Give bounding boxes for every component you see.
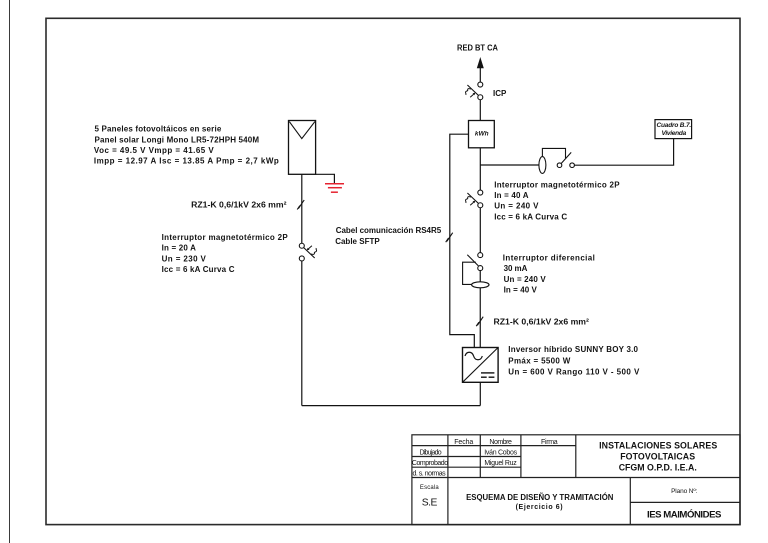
wire bottom DC run to inverter <box>302 405 481 407</box>
svg-text:Un = 240 V: Un = 240 V <box>494 201 539 210</box>
breaker ICP <box>466 82 483 100</box>
svg-text:Interruptor magnetotérmico 2P: Interruptor magnetotérmico 2P <box>162 233 289 242</box>
svg-text:Plano Nº:: Plano Nº: <box>671 488 697 495</box>
solar panel PV <box>289 121 316 175</box>
svg-text:5 Paneles fotovoltáicos en ser: 5 Paneles fotovoltáicos en serie <box>95 124 222 133</box>
svg-text:S.E: S.E <box>422 498 438 509</box>
svg-text:kWh: kWh <box>475 131 489 138</box>
label breaker 40A <box>494 180 620 221</box>
label breaker 20A <box>162 233 289 274</box>
svg-text:Un = 240 V: Un = 240 V <box>504 275 547 284</box>
svg-text:Icc = 6 kA Curva C: Icc = 6 kA Curva C <box>162 265 235 274</box>
svg-text:Pmáx = 5500 W: Pmáx = 5500 W <box>508 356 570 365</box>
svg-text:Vivienda: Vivienda <box>662 130 687 137</box>
svg-text:Icc = 6 kA Curva C: Icc = 6 kA Curva C <box>494 212 567 221</box>
arrow to grid <box>477 57 484 68</box>
wire ICP to meter <box>479 100 481 121</box>
svg-text:In = 20 A: In = 20 A <box>162 244 197 253</box>
svg-text:Comprobado: Comprobado <box>412 460 448 467</box>
svg-text:RZ1-K 0,6/1kV 2x6 mm²: RZ1-K 0,6/1kV 2x6 mm² <box>494 317 590 326</box>
RCD differential switch <box>463 253 489 348</box>
svg-text:Voc = 49.5 V Vmpp = 41.65 V: Voc = 49.5 V Vmpp = 41.65 V <box>94 146 214 155</box>
svg-text:Nombre: Nombre <box>489 439 512 446</box>
svg-text:Escala: Escala <box>420 485 439 491</box>
svg-text:Inversor híbrido SUNNY BOY 3.0: Inversor híbrido SUNNY BOY 3.0 <box>508 345 638 354</box>
contactor switch blade <box>561 152 571 163</box>
page left rule <box>9 0 11 543</box>
svg-text:Cable SFTP: Cable SFTP <box>335 237 380 246</box>
svg-text:Panel solar Longi Mono LR5-72H: Panel solar Longi Mono LR5-72HPH 540M <box>95 135 260 144</box>
svg-text:Firma: Firma <box>541 439 558 446</box>
wire PV down to breaker <box>301 174 303 243</box>
contactor terminals <box>557 163 562 168</box>
svg-text:Interruptor magnetotérmico 2P: Interruptor magnetotérmico 2P <box>494 180 620 189</box>
breaker Q1 DC 20A (rotated) <box>299 243 316 261</box>
svg-text:(Ejercicio 6): (Ejercicio 6) <box>516 504 563 511</box>
meter kWh <box>469 121 495 148</box>
svg-text:In = 40 A: In = 40 A <box>494 191 529 200</box>
contactor coil <box>539 157 546 174</box>
ground (red earth symbol) <box>325 184 344 192</box>
svg-text:FOTOVOLTAICAS: FOTOVOLTAICAS <box>620 451 695 461</box>
svg-text:d. s. normas: d. s. normas <box>413 470 447 477</box>
svg-text:Un = 600 V Rango 110 V - 500: Un = 600 V Rango 110 V - 500 V <box>508 368 640 377</box>
svg-text:RZ1-K 0,6/1kV 2x6 mm²: RZ1-K 0,6/1kV 2x6 mm² <box>191 200 287 209</box>
svg-text:Fecha: Fecha <box>454 439 473 446</box>
wire contactor to dwelling panel <box>574 139 673 166</box>
svg-text:Interruptor diferencial: Interruptor diferencial <box>503 254 595 263</box>
dwelling panel box Cuadro B.7 <box>655 120 692 139</box>
breaker 40A AC <box>466 190 483 208</box>
cable marker AC inverter cable <box>476 317 483 327</box>
svg-text:30 mA: 30 mA <box>504 264 528 273</box>
branch to dwelling <box>480 164 539 166</box>
svg-text:ESQUEMA DE DISEÑO Y TRAMITACIÓ: ESQUEMA DE DISEÑO Y TRAMITACIÓN <box>466 493 614 502</box>
svg-text:Dibujado: Dibujado <box>420 449 442 456</box>
contactor linkage <box>542 148 565 158</box>
label RCD <box>503 254 595 295</box>
wire breaker down to bottom DC bus <box>301 261 303 406</box>
inverter box <box>463 348 499 383</box>
cable marker DC string <box>297 200 304 210</box>
svg-text:Iván Cobos: Iván Cobos <box>484 449 517 456</box>
svg-text:Un = 230 V: Un = 230 V <box>162 254 207 263</box>
svg-text:RED BT CA: RED BT CA <box>457 44 498 53</box>
PV panel text block <box>94 124 279 165</box>
label inverter <box>508 345 640 377</box>
svg-text:Cabel comunicación RS4R5: Cabel comunicación RS4R5 <box>336 226 442 235</box>
label comm cable <box>335 226 442 246</box>
wire panel to ground branch <box>316 174 335 183</box>
comm cable from meter to inverter <box>450 134 475 347</box>
wire meter down <box>479 148 481 190</box>
svg-text:CFGM O.P.D. I.E.A.: CFGM O.P.D. I.E.A. <box>619 462 697 472</box>
svg-text:IES MAIMÓNIDES: IES MAIMÓNIDES <box>647 509 722 521</box>
cable marker comm <box>446 233 453 243</box>
svg-text:In = 40 V: In = 40 V <box>504 286 538 295</box>
svg-text:INSTALACIONES SOLARES: INSTALACIONES SOLARES <box>599 440 717 450</box>
svg-text:Cuadro B.7.: Cuadro B.7. <box>657 122 692 129</box>
wire 40A to RCD <box>479 208 481 253</box>
wire inverter to bottom bus <box>479 382 481 405</box>
svg-text:Impp = 12.97 A Isc = 13.85 A: Impp = 12.97 A Isc = 13.85 A Pmp = 2,7 k… <box>94 157 279 166</box>
svg-text:ICP: ICP <box>493 89 507 98</box>
svg-text:Miguel Ruz: Miguel Ruz <box>484 460 517 467</box>
